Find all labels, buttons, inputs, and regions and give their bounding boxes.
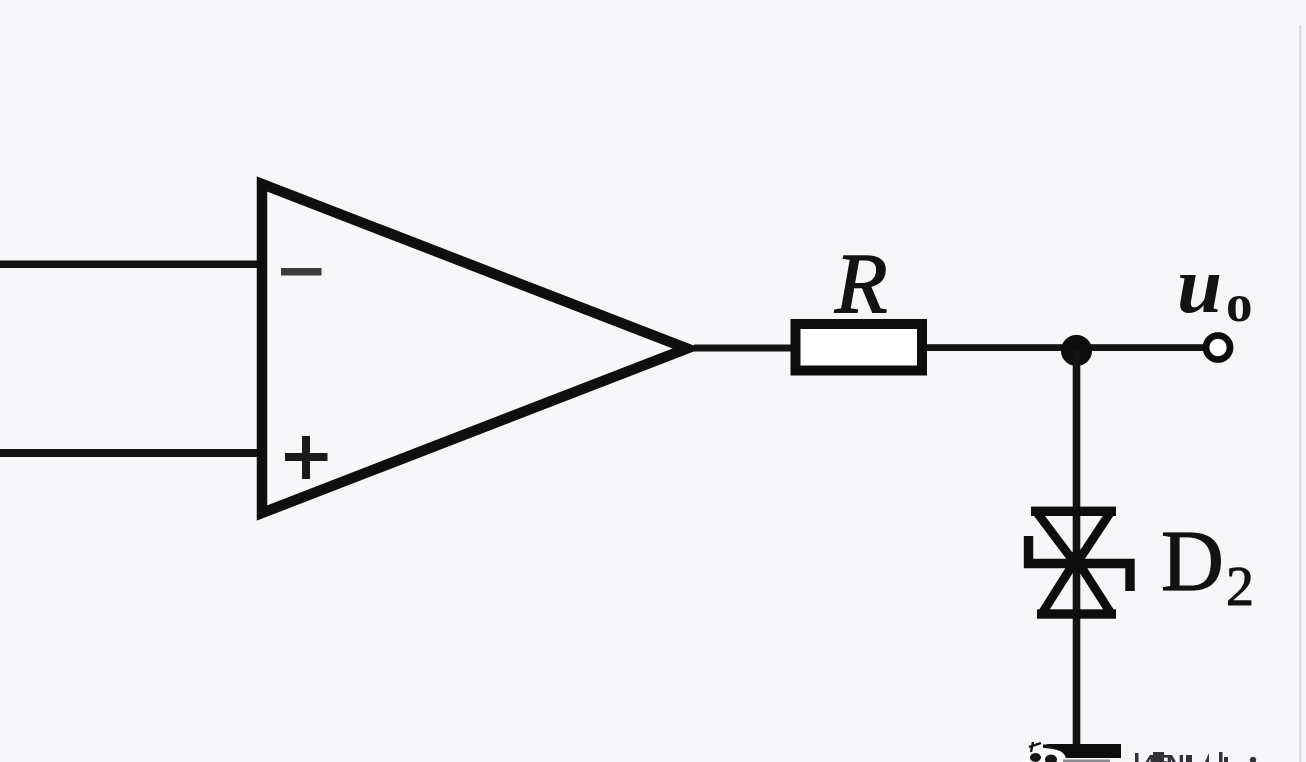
zener diode D2 : bottom triangle left edge [1041, 553, 1081, 616]
resistor R [796, 324, 923, 371]
zener diode D2 : top triangle right edge [1072, 510, 1112, 571]
output terminal (open circle) [1206, 336, 1230, 360]
ground erased-watermark white blob [1022, 748, 1066, 762]
wire: non-inverting input (left to op-amp) [0, 449, 262, 457]
ground bottom gray streak [1063, 760, 1110, 762]
zener diode D2 : bottom triangle base bar [1037, 609, 1116, 618]
watermark text (cut off at bottom edge) [1135, 749, 1256, 762]
ground [1047, 744, 1121, 758]
junction node (dot) [1061, 335, 1092, 366]
op-amp minus input label [281, 268, 322, 276]
zener diode D2 (bidirectional) : top triangle base bar [1031, 507, 1116, 516]
svg-text:u: u [1177, 240, 1222, 330]
page right edge line [1299, 25, 1302, 762]
svg-text:o: o [1226, 275, 1253, 333]
zener diode D2 : bottom triangle right edge [1072, 553, 1112, 616]
watermark speck blob left [1030, 753, 1041, 762]
svg-text:R: R [834, 235, 888, 331]
watermark speck blob right [1045, 755, 1057, 762]
watermark speck arms [1029, 742, 1041, 752]
zener diode D2 : top triangle left edge [1035, 510, 1081, 571]
op-amp plus input label [285, 436, 328, 479]
wire: op-amp output to resistor [694, 345, 792, 352]
op-amp U1 triangle [262, 184, 687, 513]
zener diode D2 : crossbar with hooked ends [1029, 536, 1131, 591]
wire: resistor to output terminal [927, 344, 1207, 351]
wire: inverting input (left to op-amp) [0, 261, 262, 269]
wire: junction down through zener to ground [1073, 351, 1081, 749]
svg-text:D: D [1161, 512, 1224, 609]
ground top-left lip [1043, 745, 1055, 749]
svg-text:N: N [1166, 749, 1185, 762]
svg-text:2: 2 [1226, 556, 1254, 618]
